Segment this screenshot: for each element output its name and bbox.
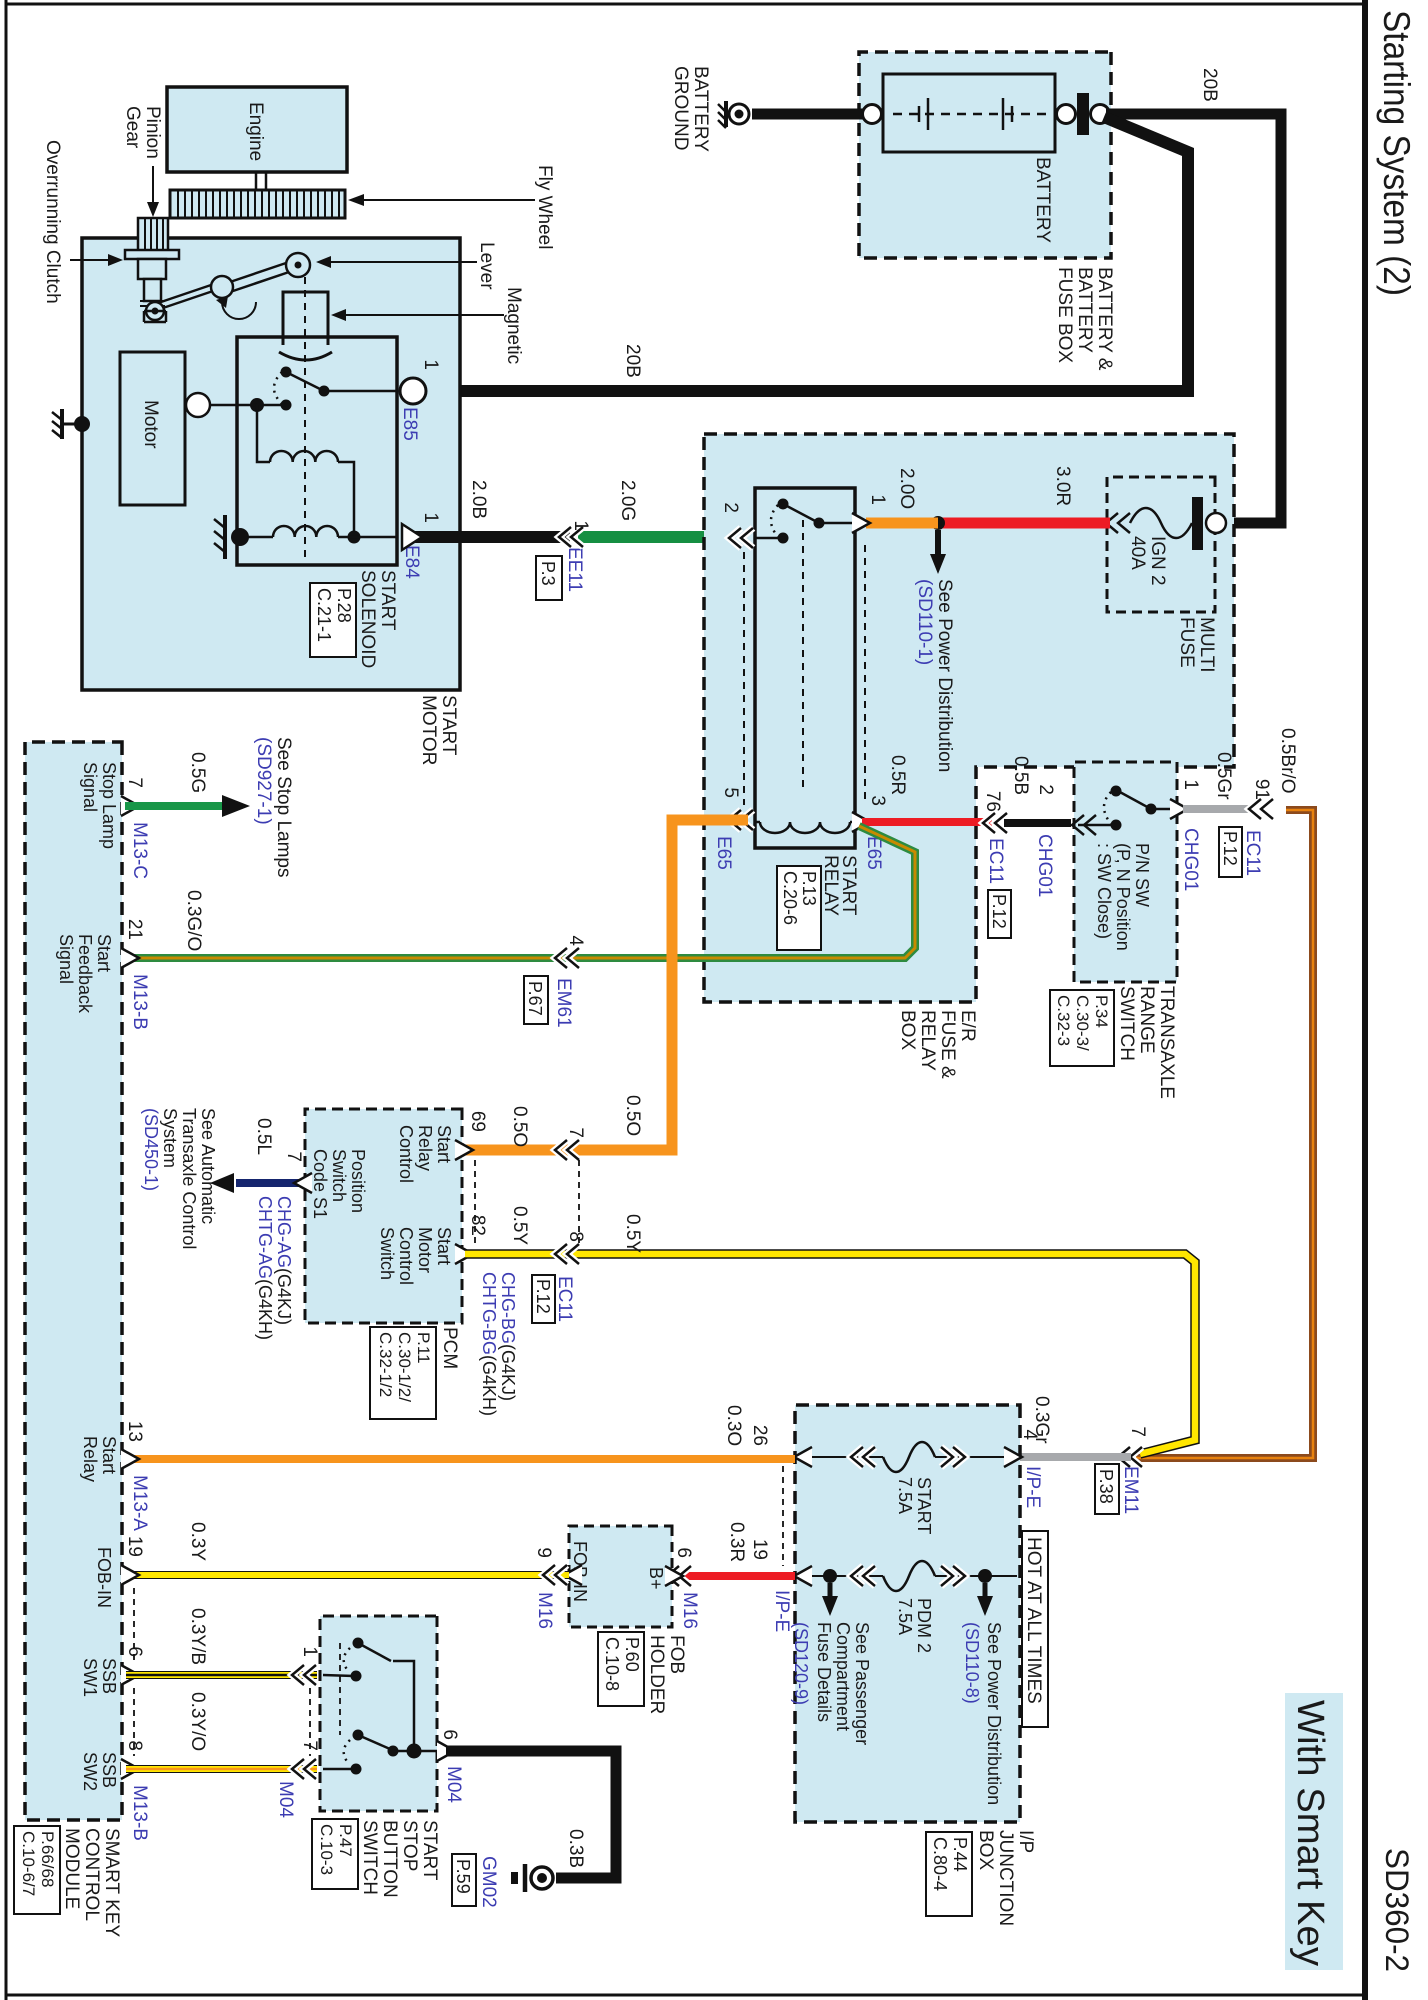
svg-text:P.60: P.60 — [622, 1637, 642, 1672]
P/N SW dashed box — [1074, 762, 1177, 982]
svg-text:0.5Br/O: 0.5Br/O — [1277, 728, 1298, 793]
svg-text:0.3B: 0.3B — [565, 1829, 586, 1868]
svg-text:SSB: SSB — [99, 1658, 119, 1694]
svg-text:See Power Distribution: See Power Distribution — [934, 579, 955, 772]
svg-text:See Power Distribution: See Power Distribution — [984, 1622, 1004, 1805]
svg-text:BATTERY &: BATTERY & — [1094, 267, 1115, 371]
svg-text:76: 76 — [982, 791, 1003, 812]
wire 0.5B EC11 to P/N SW — [1004, 819, 1071, 827]
P.11 box — [370, 1327, 436, 1419]
svg-text:M13-B: M13-B — [129, 1785, 150, 1841]
battery terminal circle (positive outer) — [1091, 105, 1110, 124]
hold-in coil — [273, 526, 338, 537]
svg-text:P.38: P.38 — [1096, 1469, 1116, 1504]
svg-text:7.5A: 7.5A — [895, 1477, 915, 1514]
SW1 pin — [292, 1665, 316, 1685]
svg-text:EC11: EC11 — [985, 838, 1006, 884]
svg-text:2: 2 — [1035, 784, 1056, 795]
svg-text:EE11: EE11 — [564, 547, 585, 592]
svg-text:CHTG-BG(G4KH): CHTG-BG(G4KH) — [479, 1272, 499, 1416]
wire 2.0G EE11 to relay pin2 — [578, 531, 747, 543]
svg-text:HOT AT ALL TIMES: HOT AT ALL TIMES — [1023, 1537, 1044, 1704]
I/P JUNCTION BOX dashed box — [795, 1405, 1020, 1822]
svg-text:: SW Close): : SW Close) — [1094, 843, 1114, 939]
svg-text:C.32-3: C.32-3 — [1054, 995, 1073, 1046]
svg-text:Stop Lamp: Stop Lamp — [99, 762, 119, 849]
pin M13-C stop lamp — [121, 796, 139, 816]
relay pin 1 — [852, 513, 870, 533]
wire 0.5G stop lamp — [125, 802, 223, 810]
svg-text:0.3Y: 0.3Y — [187, 1522, 208, 1561]
wire 20B battery ground — [752, 109, 874, 120]
svg-text:M13-B: M13-B — [129, 974, 150, 1030]
svg-text:SMART KEY: SMART KEY — [101, 1828, 122, 1937]
svg-text:0.5L: 0.5L — [253, 1118, 274, 1155]
svg-text:CHG-BG(G4KJ): CHG-BG(G4KJ) — [498, 1272, 518, 1401]
svg-text:CHG01: CHG01 — [1034, 834, 1055, 897]
dashed bracket EC11 pins — [578, 1160, 580, 1248]
svg-text:Motor: Motor — [415, 1227, 435, 1273]
PCM dashed box — [305, 1109, 462, 1323]
svg-text:6: 6 — [439, 1729, 460, 1740]
svg-text:0.3R: 0.3R — [726, 1522, 747, 1562]
svg-text:See Automatic: See Automatic — [198, 1108, 218, 1224]
svg-text:GROUND: GROUND — [670, 66, 691, 150]
svg-text:Fly Wheel: Fly Wheel — [534, 165, 555, 249]
Motor box — [120, 352, 185, 505]
svg-text:1: 1 — [299, 1646, 320, 1657]
svg-text:RANGE: RANGE — [1136, 986, 1157, 1054]
svg-text:Position: Position — [348, 1149, 368, 1213]
svg-text:FUSE BOX: FUSE BOX — [1054, 267, 1075, 363]
svg-text:P.12: P.12 — [533, 1279, 553, 1314]
battery terminal circle (positive inner) — [1057, 105, 1076, 124]
dotted throw arc — [274, 372, 282, 404]
svg-text:0.3O: 0.3O — [723, 1405, 744, 1446]
lever end pivot — [146, 302, 164, 320]
battery terminal bar — [1077, 93, 1089, 135]
Engine box — [167, 87, 347, 172]
battery cell plates bottom — [919, 98, 928, 130]
START fuse element — [883, 1442, 935, 1472]
lever pivot circle — [286, 253, 310, 277]
svg-text:20B: 20B — [622, 344, 643, 378]
svg-text:2.0O: 2.0O — [896, 468, 917, 509]
svg-text:69: 69 — [467, 1111, 488, 1132]
svg-text:(SD120-9): (SD120-9) — [791, 1622, 811, 1705]
svg-text:E/R: E/R — [957, 1010, 978, 1042]
dashed bracket PCM pins — [474, 1160, 476, 1248]
svg-text:SOLENOID: SOLENOID — [357, 570, 378, 668]
svg-text:CHG01: CHG01 — [1180, 828, 1201, 891]
svg-text:P.28: P.28 — [334, 588, 354, 623]
svg-text:Compartment: Compartment — [833, 1622, 853, 1731]
pin 19 FOB-IN — [121, 1565, 139, 1585]
P.44 box — [926, 1832, 972, 1916]
svg-text:P.44: P.44 — [950, 1837, 970, 1872]
svg-text:C.30-3/: C.30-3/ — [1073, 995, 1092, 1051]
svg-text:Code S1: Code S1 — [310, 1149, 330, 1219]
svg-text:SWITCH: SWITCH — [1116, 986, 1137, 1061]
connector EC11-91 — [1249, 799, 1273, 819]
svg-text:SD360-2: SD360-2 — [1379, 1848, 1415, 1972]
mechanical link dashed — [339, 1643, 341, 1735]
svg-text:Start: Start — [99, 1436, 119, 1474]
svg-text:EC11: EC11 — [1242, 830, 1263, 876]
pin 6 SSB SW1 — [121, 1665, 139, 1685]
svg-text:FOB: FOB — [666, 1635, 687, 1674]
svg-text:BATTERY: BATTERY — [1074, 267, 1095, 353]
svg-text:E84: E84 — [401, 545, 422, 579]
svg-text:BOX: BOX — [897, 1010, 918, 1050]
svg-text:0.5O: 0.5O — [509, 1106, 530, 1147]
battery cell plates top — [1003, 98, 1012, 130]
pin M13-A start relay — [121, 1449, 139, 1469]
connector EM61 on G/O wire — [555, 948, 579, 968]
wire 2.0O relay pin5 to PCM69 — [462, 820, 748, 1150]
connector EC11 on red/black wire — [983, 813, 1007, 833]
svg-text:Switch: Switch — [329, 1149, 349, 1202]
svg-text:P.12: P.12 — [989, 894, 1009, 929]
svg-text:FUSE: FUSE — [1176, 617, 1197, 668]
junction node — [931, 516, 945, 530]
ground GM02 — [511, 1864, 553, 1892]
svg-text:BATTERY: BATTERY — [690, 66, 711, 152]
svg-text:82: 82 — [467, 1215, 488, 1236]
START fuse rail — [800, 1456, 1014, 1458]
svg-text:E85: E85 — [399, 407, 420, 441]
solenoid ground — [231, 528, 249, 546]
wire 0.3Y FOB-IN to M13 — [126, 1571, 569, 1579]
wire node to motor terminal — [208, 404, 257, 407]
svg-text:See Stop Lamps: See Stop Lamps — [273, 737, 294, 877]
svg-text:HOLDER: HOLDER — [646, 1635, 667, 1714]
battery terminal circle (ground side) — [863, 105, 882, 124]
svg-text:8: 8 — [565, 1231, 586, 1242]
svg-text:7: 7 — [283, 1151, 304, 1162]
svg-text:Transaxle Control: Transaxle Control — [179, 1108, 199, 1249]
motor ground — [52, 409, 90, 439]
svg-text:CONTROL: CONTROL — [81, 1828, 102, 1921]
wire 0.3R IPE19 to M16-6 — [684, 1572, 795, 1580]
PCM pin 82 — [455, 1244, 473, 1264]
PDM2 node 2 + branch arrow — [978, 1569, 992, 1583]
wire 0.3Y/O SSB SW2 — [126, 1765, 317, 1773]
svg-text:6: 6 — [673, 1547, 694, 1558]
svg-text:7: 7 — [1127, 1426, 1148, 1437]
P.60 box — [598, 1632, 644, 1706]
svg-text:BOX: BOX — [975, 1830, 996, 1870]
START MOTOR box — [82, 238, 460, 690]
fly wheel gear rack — [170, 190, 345, 218]
svg-text:I/P: I/P — [1015, 1830, 1036, 1853]
svg-text:START: START — [438, 695, 459, 756]
PDM2 fuse rail — [800, 1575, 1017, 1577]
wire 0.3O IPE26 to M13-A — [126, 1455, 795, 1463]
svg-text:FOB-IN: FOB-IN — [94, 1547, 114, 1608]
svg-text:Relay: Relay — [415, 1125, 435, 1171]
START RELAY box — [755, 488, 855, 848]
svg-text:Motor: Motor — [140, 400, 161, 449]
svg-text:0.3Y/B: 0.3Y/B — [187, 1608, 208, 1665]
svg-text:P/N SW: P/N SW — [1132, 843, 1152, 907]
PCM pin 69 — [455, 1140, 473, 1160]
E84 terminal arrow — [402, 524, 422, 550]
wire 0.5Gr P/N SW to EC11-91 — [1183, 805, 1252, 813]
svg-text:7: 7 — [565, 1127, 586, 1138]
fork link lever to clutch — [144, 311, 166, 322]
svg-text:P.59: P.59 — [453, 1859, 473, 1894]
svg-text:JUNCTION: JUNCTION — [995, 1830, 1016, 1926]
svg-text:0.5R: 0.5R — [887, 755, 908, 795]
svg-text:BATTERY: BATTERY — [1032, 157, 1053, 243]
svg-text:1: 1 — [1180, 779, 1201, 790]
svg-text:26: 26 — [749, 1425, 770, 1446]
svg-text:Control: Control — [396, 1227, 416, 1285]
relay pin 5 — [729, 810, 753, 830]
svg-text:GM02: GM02 — [478, 1856, 499, 1908]
wire 0.5R relay pin3 to EC11 — [862, 818, 992, 826]
SW2 pin — [292, 1759, 316, 1779]
svg-text:M13-A: M13-A — [129, 1475, 150, 1531]
svg-text:Fuse Details: Fuse Details — [814, 1622, 834, 1722]
contact to motor node — [257, 404, 286, 407]
wire 0.5L PCM7 — [236, 1179, 305, 1187]
svg-text:0.3G/O: 0.3G/O — [183, 890, 204, 951]
svg-text:SW1: SW1 — [80, 1658, 100, 1697]
svg-text:Pinion: Pinion — [142, 106, 163, 159]
overrunning clutch — [125, 250, 179, 301]
svg-text:C.80-4: C.80-4 — [930, 1837, 950, 1891]
svg-text:4: 4 — [565, 935, 586, 946]
IGN2 fuse terminal circle — [1206, 513, 1226, 533]
svg-text:Start: Start — [434, 1227, 454, 1265]
svg-text:1: 1 — [420, 359, 441, 370]
wire 2.0O junction to relay pin1 — [866, 518, 938, 529]
solenoid moving contact — [286, 372, 324, 391]
svg-text:Switch: Switch — [377, 1227, 397, 1280]
wire 0.3Y/B SSB SW1 — [126, 1671, 317, 1679]
svg-text:System: System — [160, 1108, 180, 1168]
wire 0.3Gr EM11 to IPE4 — [1018, 1453, 1131, 1461]
relay actuation dashed link — [802, 520, 804, 790]
relay coil — [760, 822, 850, 833]
svg-text:RELAY: RELAY — [820, 855, 841, 916]
svg-text:M04: M04 — [275, 1781, 296, 1818]
solenoid switch wire to E85 — [324, 390, 397, 393]
svg-text:START: START — [419, 1820, 440, 1881]
svg-text:M16: M16 — [679, 1592, 700, 1629]
svg-text:Relay: Relay — [80, 1436, 100, 1482]
svg-text:M04: M04 — [443, 1766, 464, 1803]
wire 3.0R fuse to junction — [938, 518, 1110, 529]
IGN2 fuse lower chevron — [1106, 513, 1130, 533]
pin M13-B start feedback — [121, 948, 139, 968]
svg-text:0.5G: 0.5G — [187, 752, 208, 793]
svg-text:SW2: SW2 — [80, 1752, 100, 1791]
svg-text:START: START — [377, 570, 398, 631]
svg-text:M13-C: M13-C — [129, 822, 150, 879]
svg-text:Starting System (2): Starting System (2) — [1376, 10, 1417, 296]
IGN2 fuse terminal bar — [1192, 497, 1203, 550]
svg-text:EC11: EC11 — [554, 1276, 575, 1322]
SMART KEY CONTROL MODULE dashed box — [25, 742, 122, 1820]
wire 0.3B M04-6 to GM02 — [446, 1751, 616, 1878]
IGN2 fuse element — [1130, 508, 1192, 538]
dashed bracket M04 pins — [309, 1688, 311, 1756]
svg-text:C.21-1: C.21-1 — [314, 588, 334, 642]
clutch shaft lines — [140, 301, 165, 306]
svg-text:0.5O: 0.5O — [622, 1095, 643, 1136]
svg-text:PDM 2: PDM 2 — [914, 1598, 934, 1653]
svg-text:EM61: EM61 — [553, 978, 574, 1028]
START SOLENOID box — [237, 337, 397, 565]
wire 20B to multi fuse (up then right) — [1106, 114, 1281, 523]
lever mid circle — [211, 276, 233, 298]
svg-text:Start: Start — [94, 934, 114, 972]
svg-text:TRANSAXLE: TRANSAXLE — [1156, 986, 1177, 1099]
wire 0.5Br/O EC11-91 to EM11 — [1136, 810, 1313, 1458]
svg-text:E65: E65 — [713, 836, 734, 870]
svg-text:0.5Gr: 0.5Gr — [1213, 752, 1234, 800]
wire 0.5Y PCM82 to EM11 — [465, 1254, 1195, 1454]
PDM2 node 1 + branch arrow — [823, 1569, 837, 1583]
magnetic yoke bracket — [279, 292, 332, 360]
P.13 C.20-6 box — [777, 866, 821, 950]
P.28 C.21-1 box — [310, 583, 356, 657]
connector M16-6 — [667, 1566, 691, 1586]
connector M16-9 — [543, 1565, 567, 1585]
lever arm — [158, 261, 295, 309]
svg-text:P.47: P.47 — [336, 1824, 355, 1857]
SW2 contacts — [323, 1768, 354, 1771]
svg-text:3: 3 — [867, 795, 888, 806]
SW1 contacts — [323, 1675, 354, 1676]
svg-text:2: 2 — [720, 502, 741, 513]
svg-text:M16: M16 — [534, 1592, 555, 1629]
svg-text:(SD110-8): (SD110-8) — [962, 1622, 982, 1704]
coil link to hold coil — [338, 462, 354, 537]
svg-text:C.10-8: C.10-8 — [602, 1637, 622, 1691]
wire 2.0B E84 to EE11 — [404, 531, 570, 543]
svg-text:FUSE &: FUSE & — [937, 1010, 958, 1079]
With Smart Key banner — [1285, 1693, 1343, 1970]
pinion gear — [138, 218, 168, 252]
svg-text:B+: B+ — [646, 1567, 666, 1590]
connector EM11 — [1118, 1447, 1142, 1467]
svg-text:Signal: Signal — [80, 762, 100, 812]
pull-in coil feed — [257, 405, 270, 462]
svg-text:(SD927-1): (SD927-1) — [253, 737, 274, 825]
BATTERY & BATTERY FUSE BOX dashed box — [859, 52, 1111, 258]
battery centerline dashed — [891, 113, 1046, 116]
svg-text:RELAY: RELAY — [917, 1010, 938, 1071]
svg-text:IGN 2: IGN 2 — [1147, 536, 1168, 586]
svg-text:MODULE: MODULE — [61, 1828, 82, 1909]
svg-text:Control: Control — [396, 1125, 416, 1183]
svg-text:1: 1 — [420, 512, 441, 523]
E/R FUSE & RELAY BOX dashed outline — [704, 434, 1234, 1002]
svg-text:Engine: Engine — [245, 102, 266, 161]
svg-text:Feedback: Feedback — [75, 934, 95, 1014]
curved arrow on lever — [222, 302, 256, 319]
P.47 box — [312, 1819, 358, 1889]
M04-6 pin — [437, 1741, 455, 1761]
connector 7 on 0.5O wire — [555, 1140, 579, 1160]
svg-text:20B: 20B — [1199, 68, 1220, 102]
MULTI FUSE dashed box — [1107, 477, 1215, 612]
PDM2 fuse element — [883, 1561, 935, 1591]
svg-text:0.5Y: 0.5Y — [622, 1214, 643, 1253]
hold-in coil line from E84 — [338, 536, 397, 539]
svg-text:BUTTON: BUTTON — [379, 1820, 400, 1898]
svg-text:CHTG-AG(G4KH): CHTG-AG(G4KH) — [255, 1196, 275, 1340]
svg-text:2.0G: 2.0G — [617, 480, 638, 521]
wire 0.3G/O relay pin3 branch — [126, 826, 915, 958]
svg-text:P.13: P.13 — [799, 871, 819, 906]
svg-text:P.67: P.67 — [525, 981, 545, 1016]
svg-text:C.10-6/7: C.10-6/7 — [19, 1831, 38, 1896]
connector 8 on 0.5Y — [555, 1244, 579, 1264]
svg-text:Overrunning Clutch: Overrunning Clutch — [42, 140, 63, 304]
svg-text:0.3Y/O: 0.3Y/O — [187, 1692, 208, 1751]
svg-text:C.20-6: C.20-6 — [780, 871, 800, 925]
svg-text:C.30-1/2/: C.30-1/2/ — [395, 1332, 414, 1402]
relay switch — [819, 522, 855, 525]
P/N SW contacts — [1151, 808, 1177, 811]
svg-text:PCM: PCM — [439, 1327, 460, 1369]
svg-text:(SD110-1): (SD110-1) — [914, 579, 935, 665]
svg-text:40A: 40A — [1127, 536, 1148, 570]
svg-text:E65: E65 — [863, 836, 884, 870]
svg-text:SWITCH: SWITCH — [359, 1820, 380, 1895]
svg-text:P.66/68: P.66/68 — [38, 1831, 57, 1887]
battery ground symbol — [718, 101, 749, 128]
svg-text:(SD450-1): (SD450-1) — [141, 1108, 161, 1191]
svg-text:I/P-E: I/P-E — [771, 1590, 792, 1632]
svg-text:Gear: Gear — [122, 106, 143, 149]
svg-text:2.0B: 2.0B — [468, 480, 489, 519]
svg-text:Lever: Lever — [476, 242, 497, 290]
svg-text:0.5B: 0.5B — [1010, 756, 1031, 795]
svg-text:STOP: STOP — [399, 1820, 420, 1871]
svg-text:See Passenger: See Passenger — [852, 1622, 872, 1745]
svg-text:19: 19 — [124, 1536, 145, 1557]
P.66/68 box — [14, 1826, 60, 1914]
P/N SW pin arrows — [1170, 799, 1188, 819]
svg-text:SSB: SSB — [99, 1752, 119, 1788]
svg-text:P.3: P.3 — [538, 561, 558, 586]
svg-text:(P, N Position: (P, N Position — [1113, 843, 1133, 951]
dashed bracket M13 pins — [133, 1588, 135, 1662]
svg-text:Magnetic: Magnetic — [503, 287, 524, 364]
svg-text:CHG-AG(G4KJ): CHG-AG(G4KJ) — [274, 1196, 294, 1325]
wire 20B to E85 (diagonal, right, down) — [424, 117, 1188, 391]
START STOP BUTTON SWITCH box — [320, 1616, 437, 1811]
svg-text:Start: Start — [434, 1125, 454, 1163]
svg-text:I/P-E: I/P-E — [1022, 1466, 1043, 1508]
svg-text:MOTOR: MOTOR — [418, 695, 439, 765]
P.34 box — [1050, 990, 1114, 1066]
svg-text:With Smart Key: With Smart Key — [1289, 1700, 1331, 1966]
svg-text:7: 7 — [124, 777, 145, 788]
svg-text:5: 5 — [720, 787, 741, 798]
svg-text:P.34: P.34 — [1092, 995, 1111, 1028]
engine shaft — [265, 172, 268, 190]
svg-text:START: START — [914, 1477, 934, 1534]
pull-in coil — [270, 451, 338, 462]
HOT AT ALL TIMES — [1022, 1531, 1048, 1727]
